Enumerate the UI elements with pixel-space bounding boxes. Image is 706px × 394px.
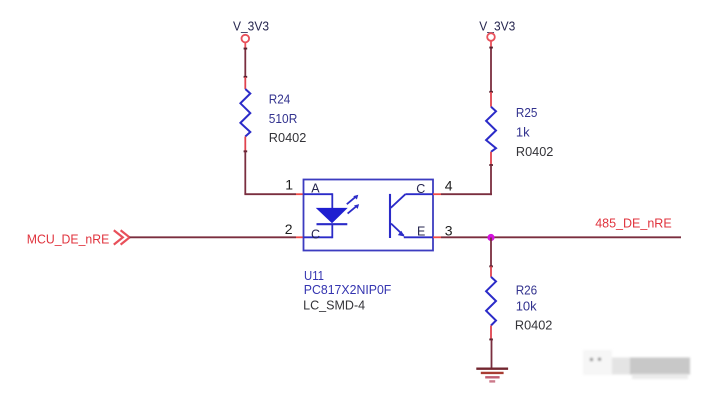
label 10k bbox=[516, 299, 537, 314]
U11 pin A label bbox=[311, 182, 320, 196]
wire: pin 4 to R25 corner bbox=[441, 193, 492, 195]
wire: pin 3 to right end 485_DE_nRE bbox=[441, 236, 681, 238]
label R0402 (R26) bbox=[515, 318, 553, 333]
phototransistor inside U11 bbox=[390, 194, 433, 238]
svg-text:V_3V3: V_3V3 bbox=[479, 18, 515, 33]
svg-text:2: 2 bbox=[285, 221, 293, 237]
label 510R bbox=[269, 111, 298, 126]
wire: MCU_DE_nRE to pin 2 bbox=[130, 236, 296, 238]
wire: R26 down to ground bbox=[491, 340, 493, 368]
label R25 bbox=[516, 105, 538, 120]
U11 pin C label (collector) bbox=[416, 182, 425, 196]
wire: pin 4 stub bbox=[433, 193, 441, 195]
wire: left vertical V_3V3 to R24 bbox=[244, 48, 248, 78]
svg-text:MCU_DE_nRE: MCU_DE_nRE bbox=[27, 231, 110, 246]
wire: V_3V3 right pin stub bbox=[490, 41, 492, 48]
U11 pin C label (cathode) bbox=[311, 228, 320, 242]
svg-text:R26: R26 bbox=[516, 282, 538, 297]
label R26 bbox=[516, 282, 538, 297]
svg-text:PC817X2NIP0F: PC817X2NIP0F bbox=[304, 282, 392, 297]
U11 pin E label (emitter) bbox=[417, 224, 425, 238]
wire: R24 down to corner and to pin 1 bbox=[244, 151, 296, 194]
label R0402 (R24) bbox=[269, 130, 307, 145]
svg-text:4: 4 bbox=[445, 178, 453, 194]
svg-text:510R: 510R bbox=[269, 111, 298, 126]
power symbol V_3V3 right bbox=[479, 18, 515, 41]
svg-text:E: E bbox=[417, 224, 425, 238]
svg-text:C: C bbox=[311, 228, 320, 242]
resistor R26 bbox=[486, 266, 496, 340]
net label MCU_DE_nRE bbox=[27, 231, 110, 246]
svg-text:A: A bbox=[311, 182, 320, 196]
svg-text:10k: 10k bbox=[516, 299, 537, 314]
wire: R25 down to pin4 corner bbox=[490, 165, 492, 195]
resistor R25 bbox=[486, 92, 496, 166]
port chevron MCU_DE_nRE bbox=[114, 230, 130, 244]
wire: pin 2 stub bbox=[296, 236, 304, 238]
label R24 bbox=[269, 92, 291, 107]
svg-text:R0402: R0402 bbox=[516, 144, 554, 159]
pin number 1 bbox=[285, 177, 293, 193]
svg-text:3: 3 bbox=[445, 223, 453, 239]
junction node (pin3 / R26) bbox=[487, 234, 494, 241]
svg-text:1k: 1k bbox=[516, 125, 530, 140]
label U11 bbox=[304, 268, 324, 283]
wire: pin 1 stub bbox=[296, 193, 304, 195]
pin number 4 bbox=[445, 178, 453, 194]
pin number 3 bbox=[445, 223, 453, 239]
svg-text:LC_SMD-4: LC_SMD-4 bbox=[303, 298, 365, 313]
label R0402 (R25) bbox=[516, 144, 554, 159]
LED inside U11 bbox=[304, 193, 348, 238]
svg-text:R0402: R0402 bbox=[269, 130, 307, 145]
svg-text:485_DE_nRE: 485_DE_nRE bbox=[595, 216, 672, 231]
power symbol V_3V3 left bbox=[233, 19, 269, 43]
net label 485_DE_nRE bbox=[595, 216, 672, 231]
svg-text:V_3V3: V_3V3 bbox=[233, 19, 269, 34]
label PC817X2NIP0F bbox=[304, 282, 392, 297]
wire: right vertical V_3V3 to R25 bbox=[489, 47, 493, 93]
svg-text:1: 1 bbox=[285, 177, 293, 193]
svg-text:R24: R24 bbox=[269, 92, 291, 107]
ground symbol bbox=[476, 369, 508, 382]
optocoupler U11 body bbox=[304, 180, 434, 251]
svg-text:C: C bbox=[416, 182, 425, 196]
label 1k bbox=[516, 125, 530, 140]
svg-text:U11: U11 bbox=[304, 268, 324, 283]
watermark blur bottom right bbox=[583, 350, 690, 379]
wire: V_3V3 left pin stub bbox=[244, 43, 246, 49]
resistor R24 bbox=[240, 77, 250, 152]
pin number 2 bbox=[285, 221, 293, 237]
wire: pin 3 stub bbox=[433, 236, 441, 238]
svg-text:R0402: R0402 bbox=[515, 318, 553, 333]
wire: junction down to R26 bbox=[489, 238, 493, 268]
LED emission arrows bbox=[347, 195, 359, 214]
label LC_SMD-4 bbox=[303, 298, 365, 313]
svg-text:R25: R25 bbox=[516, 105, 538, 120]
